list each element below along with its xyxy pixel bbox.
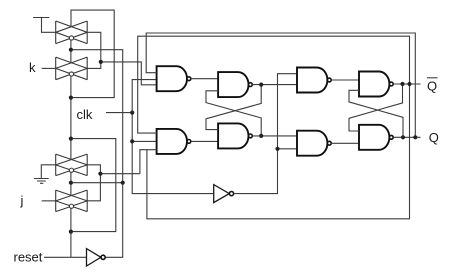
junction: phi2 at reset chain [69,230,73,234]
wire clk net: label tap, vertical, U1.B stub, U3.B stub, to inverter input [106,80,214,194]
NAND gate U7 (slave input bottom) [297,131,327,156]
label clk [77,107,93,122]
wire master latch cross-coupling upper [206,85,261,130]
transmission gate TG3 (j pass gate upper) [56,154,87,176]
svg-text:Q: Q [427,78,437,93]
NAND gate U8 (slave latch bottom) [359,125,389,150]
junction: Q feedback tap [413,135,417,139]
inverter U10 (reset inverter) [87,249,101,266]
U7 output bubble [327,141,331,145]
label Q-bar [427,78,437,93]
U8 output bubble [389,135,393,139]
svg-text:Q: Q [429,130,439,145]
wire Q-bar feedback: second top run to U3.A [138,36,410,219]
junction: Q node coupling tap [401,135,405,139]
U4 output bubble [249,134,253,138]
transmission gate TG2 (k pass gate) [56,57,87,80]
wire k input [42,67,56,69]
junction: phi branch below TG2 [69,96,73,100]
wire master latch cross-coupling lower [206,91,261,136]
NAND gate U3 (j-side master input gate, 3-in) [157,129,187,154]
wire phi2 loop: branch at TG3 control down to reset chain [71,139,116,232]
junction: clk label tap [130,111,134,115]
junction: TG3/TG4 control tie at reset-bar [121,181,125,185]
svg-text:clk: clk [77,107,93,122]
NAND gate U2 (master latch top) [218,72,248,97]
junction: U4 output node [259,134,263,138]
wire reset input to inverter [44,256,87,258]
wire k pass-gate outputs to NAND U1 input C [87,32,156,85]
label Q [429,130,439,145]
junction: phi2 branch above TG3 [69,137,73,141]
NAND gate U4 (master latch bottom) [218,123,248,148]
TG2 inverted-control bubble [69,72,73,76]
inverter U9 (clock inverter) [214,185,230,203]
svg-text:reset: reset [14,250,43,265]
wire slave latch cross-coupling upper [349,84,403,131]
wire U2 out to U5 [252,84,297,86]
U6 output bubble [389,82,393,86]
wire U7 out to U8 [331,142,359,144]
power rail stub (top-left) [33,18,56,33]
junction: TG3/TG4 control tie left [69,181,73,185]
wire slave latch cross-coupling lower [349,90,403,137]
junction: j pass-gate outputs [98,172,102,176]
wire U1 out to U2 [191,78,218,80]
TG3 inverted-control bubble [69,168,73,172]
ground symbol (j section) [34,165,56,183]
TG4 inverted-control bubble [69,204,73,208]
NAND gate U5 (slave input top) [297,68,327,93]
wire phi: TG1 top control, top run, down leg, branch back to chain [71,10,114,98]
NAND gate U1 (k-side master input gate, 3-in) [157,66,187,91]
wire reset-bar net: branch at TG1/TG2, long vertical, from reset inverter output [71,50,123,258]
U5 output bubble [327,78,331,82]
junction: clk to U3.B [130,139,134,143]
transmission gate TG4 (j pass gate lower) [56,190,87,212]
junction: U2 output node [259,83,263,87]
wire U4 out to U7 [252,135,297,137]
wire Q-bar output [393,83,420,85]
junction: Q-bar node coupling tap [400,82,404,86]
junction: k pass-gate outputs [99,60,103,64]
label j [20,193,24,208]
transmission gate TG1 (reset pass gate, top) [56,21,87,44]
wire branch TG3/TG4 control to reset-bar vertical [71,182,123,184]
label k [29,60,36,75]
wire Q feedback frame: top edge to U1.A, right leg, bottom edge to U3.C [146,33,415,137]
U10 output bubble [101,255,105,259]
wire control chain verticals between TG1..TG4 [70,40,72,257]
junction: reset-bar branch at TG1/TG2 controls [69,48,73,52]
junction: Q-bar feedback tap [407,82,411,86]
wire j pass-gate outputs joined [87,165,140,201]
U2 output bubble [249,83,253,87]
U9 output bubble [229,192,233,196]
TG1 inverted-control bubble [69,36,73,40]
wire j input [42,200,56,202]
label reset [14,250,43,265]
svg-text:j: j [20,193,24,208]
NAND gate U6 (slave latch top) [359,72,389,97]
wire U5 out to U6 [331,79,359,81]
wire Q output [393,136,420,138]
U1 output bubble [187,77,191,81]
junction: clk-bar to U7.B [275,147,279,151]
svg-text:k: k [29,60,36,75]
wire U3 out to U4 [191,140,218,142]
wire clk-bar: U9 out up to U5.A and U7.B [234,74,297,194]
U3 output bubble [187,140,191,144]
